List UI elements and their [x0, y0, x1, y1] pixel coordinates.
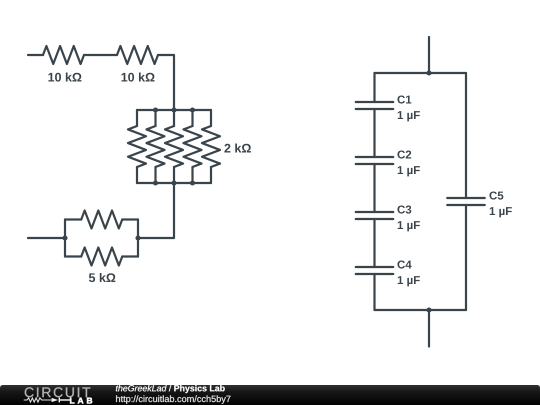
resistor 5 kΩ (bottom of pair) — [65, 255, 81, 257]
value label 5 kΩ (parallel pair) — [89, 273, 116, 282]
node: junction dot bottom rail x=192.5 — [190, 180, 195, 185]
wire: 5 kΩ pair right vertical — [137, 220, 139, 257]
wire: bottom stem out of capacitor network — [428, 310, 430, 347]
node: junction dot 5 kΩ left — [62, 235, 67, 240]
value label 1 µF (C2) — [398, 166, 420, 176]
node: junction dot top rail x=192.5 — [190, 107, 195, 112]
capacitor C2 plates — [356, 157, 394, 164]
wire: segment C5 to bottom rail — [465, 205, 467, 310]
resistor 2 kΩ bank leg 5 (x=211) — [210, 110, 212, 126]
node: junction dot capacitor top rail — [426, 70, 431, 75]
CircuitLab logo waveform: resistor zigzag — [24, 398, 52, 402]
footer url line — [116, 395, 230, 404]
designator label C2 — [397, 150, 411, 158]
resistor 2 kΩ bank leg 4 (x=192.5) — [191, 110, 193, 126]
wire: left lead into first 10 kΩ resistor — [28, 54, 43, 56]
value label 1 µF (C3) — [398, 221, 420, 231]
node: junction dot capacitor bottom rail — [426, 307, 431, 312]
wire: segment C2 to C3 — [373, 164, 375, 212]
wire: top rail of 2 kΩ parallel bank — [137, 109, 211, 111]
resistor 2 kΩ bank leg 3 (x=174) — [173, 110, 175, 126]
wire: from second 10 kΩ right end, corner down to parallel bank top rail — [158, 55, 174, 110]
resistor 2 kΩ bank leg 1 (x=137) — [136, 110, 138, 126]
node: junction dot 5 kΩ right — [135, 235, 140, 240]
wire: segment C3 to C4 — [373, 219, 375, 267]
wire: capacitor network bottom rail — [375, 309, 467, 311]
wire: segment C4 to bottom rail — [373, 274, 375, 310]
resistor 5 kΩ (top of pair) — [65, 218, 81, 220]
footer bar — [0, 385, 540, 405]
wire: right branch segment rail to C5 — [465, 73, 467, 198]
CircuitLab logo wordmark LAB — [70, 398, 92, 404]
capacitor C4 plates — [356, 267, 394, 274]
wire: bottom rail of 2 kΩ parallel bank — [137, 182, 211, 184]
wire: left branch segment rail to C1 — [373, 73, 375, 102]
designator label C1 — [397, 95, 411, 103]
value label 1 µF (C4) — [398, 276, 420, 286]
value label 1 µF (C1) — [398, 111, 420, 121]
wire: left lead into 5 kΩ parallel pair — [28, 237, 65, 239]
capacitor C5 plates — [447, 198, 485, 205]
resistor 10 kΩ (second, series top-left) — [117, 46, 158, 64]
resistor 10 kΩ (first, series top-left) — [43, 46, 84, 64]
footer credit line: theGreekLad / Physics Lab — [116, 385, 225, 393]
CircuitLab logo diode symbol — [52, 398, 59, 402]
node: junction dot top rail x=174 — [171, 107, 176, 112]
resistor 2 kΩ bank leg 2 (x=155.5) — [154, 110, 156, 126]
designator label C3 — [397, 205, 411, 213]
wire: between the two 10 kΩ resistors — [84, 54, 117, 56]
value label 2 kΩ (parallel bank) — [224, 143, 250, 152]
wire: segment C1 to C2 — [373, 109, 375, 157]
capacitor C1 plates — [356, 102, 394, 109]
wire: capacitor network top rail — [375, 72, 467, 74]
wire: top stem into capacitor network — [428, 37, 430, 73]
capacitor C3 plates — [356, 212, 394, 219]
designator label C5 — [489, 191, 503, 199]
node: junction dot bottom rail x=174 — [171, 180, 176, 185]
node: junction dot bottom rail x=155.5 — [153, 180, 158, 185]
value label 1 µF (C5) — [490, 207, 512, 217]
wire: 5 kΩ pair left vertical — [64, 220, 66, 257]
value label 10 kΩ (second resistor) — [121, 72, 154, 81]
wire: from 2 kΩ bank bottom rail down and left to 5 kΩ pair right node — [138, 183, 174, 238]
CircuitLab logo wordmark CIRCUIT — [25, 387, 91, 397]
value label 10 kΩ (first resistor) — [48, 72, 81, 81]
node: junction dot top rail x=155.5 — [153, 107, 158, 112]
designator label C4 — [397, 260, 411, 268]
